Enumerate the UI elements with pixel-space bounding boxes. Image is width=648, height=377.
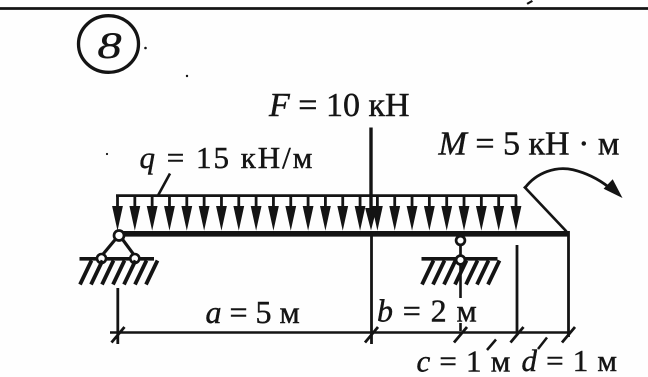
top rule [0, 7, 648, 10]
label M = 5 kN*m [438, 126, 620, 163]
svg-text:b = 2 м: b = 2 м [377, 293, 478, 329]
label F = 10 kN [268, 87, 410, 124]
svg-text:8: 8 [98, 26, 122, 67]
moment M curved arrow [525, 169, 623, 198]
svg-text:F = 10 кН: F = 10 кН [268, 87, 410, 124]
scan speck right of circle [144, 47, 147, 50]
svg-text:a = 5 м: a = 5 м [206, 294, 300, 330]
svg-text:q = 15 кН/м: q = 15 кН/м [140, 140, 315, 175]
problem number circle 8 [79, 16, 139, 73]
distributed load top line [116, 194, 517, 197]
prime mark near d [538, 338, 547, 350]
scan speck [186, 75, 188, 77]
prime mark near c [487, 340, 496, 351]
label a = 5 m [206, 294, 300, 330]
distributed load arrows [112, 196, 521, 231]
label d = 1 m [522, 343, 618, 377]
extension line under force F [370, 236, 373, 344]
label q = 15 kN/m [140, 140, 315, 175]
left support hatching [80, 261, 158, 285]
right roller support [422, 236, 498, 264]
extension line under roller [459, 265, 462, 332]
force F arrow [365, 128, 377, 231]
beam [117, 231, 568, 237]
beam end diagonal [524, 187, 567, 232]
right support hatching [422, 261, 500, 285]
label c = 1 m [417, 344, 512, 377]
dimension ticks [112, 327, 576, 343]
scan speck left of q [106, 153, 108, 155]
extension line at beam right end [567, 231, 570, 337]
left pin support [80, 231, 155, 264]
stray mark above rule [527, 0, 534, 5]
leader line from q label to load [158, 174, 170, 196]
svg-text:d = 1 м: d = 1 м [522, 343, 618, 377]
dimension line [110, 331, 570, 334]
extension line between c and d [516, 245, 519, 332]
svg-text:c = 1 м: c = 1 м [417, 344, 512, 377]
extension line at left support [116, 288, 119, 344]
svg-text:M = 5 кН · м: M = 5 кН · м [438, 126, 620, 163]
label b = 2 m [377, 293, 478, 329]
